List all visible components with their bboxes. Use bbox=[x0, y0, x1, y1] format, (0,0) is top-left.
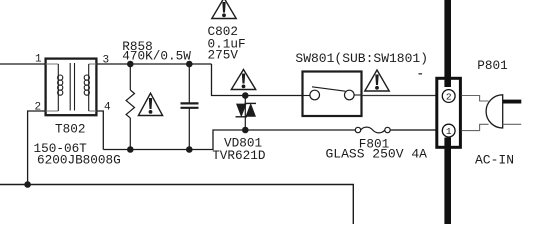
varistor VD801 bbox=[236, 96, 257, 131]
warning triangle above C802 bbox=[212, 0, 236, 19]
wire: AC line top rail to transformer pin 1 bbox=[0, 63, 45, 65]
svg-text:6200JB8008G: 6200JB8008G bbox=[37, 153, 121, 168]
svg-text:2: 2 bbox=[446, 92, 452, 103]
junction: varistor bottom bbox=[242, 127, 249, 134]
switch SW801 bbox=[303, 72, 362, 117]
svg-text:SW801(SUB:SW1801): SW801(SUB:SW1801) bbox=[295, 51, 428, 66]
svg-text:3: 3 bbox=[103, 55, 110, 67]
warning triangle near R858 bbox=[138, 93, 162, 115]
junction: capacitor top bbox=[186, 61, 193, 68]
wire: connector to plug lower lead bbox=[462, 124, 489, 130]
junction: resistor bottom bbox=[127, 146, 134, 153]
svg-text:1: 1 bbox=[446, 126, 452, 137]
svg-text:470K/0.5W: 470K/0.5W bbox=[122, 48, 191, 63]
connector P801 bbox=[437, 78, 461, 147]
svg-text:T802: T802 bbox=[55, 122, 85, 137]
wire: switch to connector P801 pin 2 bbox=[362, 95, 436, 97]
AC cord: thick line above connector bbox=[444, 0, 451, 87]
capacitor C802 bbox=[181, 64, 199, 150]
transformer T802 bbox=[46, 59, 97, 116]
junction: resistor top bbox=[127, 61, 134, 68]
wire: top rail jog down to upper branch bbox=[212, 64, 303, 96]
svg-text:1: 1 bbox=[35, 54, 42, 66]
AC cord: thick line below connector bbox=[444, 138, 451, 225]
junction: pin2 drop on bottom bus bbox=[24, 181, 31, 188]
wire: connector to plug upper lead bbox=[462, 96, 489, 102]
AC plug P801 body bbox=[486, 95, 503, 128]
wire: bottom bus bbox=[0, 185, 353, 225]
junction: varistor top bbox=[242, 92, 249, 99]
fuse F801 bbox=[355, 127, 390, 133]
junction: capacitor bottom bbox=[186, 146, 193, 153]
svg-text:TVR621D: TVR621D bbox=[212, 148, 265, 163]
wire: fuse to connector P801 pin 1 bbox=[390, 129, 436, 131]
warning triangle above varistor bbox=[231, 70, 255, 90]
svg-text:AC-IN: AC-IN bbox=[475, 153, 514, 168]
warning triangle right of switch bbox=[365, 70, 389, 91]
resistor R858 bbox=[126, 64, 134, 150]
stray dash mark bbox=[419, 73, 423, 75]
svg-text:4: 4 bbox=[104, 102, 111, 114]
wire: lower rail bbox=[103, 130, 355, 150]
AC plug prong (thin) bbox=[503, 123, 522, 125]
svg-text:2: 2 bbox=[35, 102, 42, 114]
wire: pin 2 to bottom bus bbox=[28, 111, 45, 185]
svg-text:GLASS 250V 4A: GLASS 250V 4A bbox=[326, 147, 428, 162]
svg-text:275V: 275V bbox=[208, 47, 239, 62]
wire: pin 4 to lower rail bbox=[97, 111, 103, 150]
svg-text:P801: P801 bbox=[477, 58, 507, 73]
AC plug prong (thick) bbox=[503, 100, 522, 104]
wire: pin 3 top rail bbox=[97, 63, 212, 65]
